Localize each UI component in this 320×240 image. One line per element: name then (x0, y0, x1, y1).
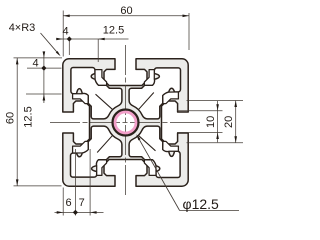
svg-text:7: 7 (79, 197, 85, 209)
svg-text:φ12.5: φ12.5 (183, 196, 220, 212)
extrusion profile body (60x60, 4 T-slots, 4 chambers, center bore) (63, 59, 188, 186)
svg-text:12.5: 12.5 (103, 25, 124, 37)
dimension 10 (slot opening, right) (177, 110, 223, 112)
pocket cells beside slot cavities (73, 70, 179, 176)
svg-text:4: 4 (63, 26, 69, 38)
svg-text:12.5: 12.5 (23, 106, 35, 127)
svg-text:20: 20 (223, 116, 235, 128)
svg-text:4: 4 (32, 58, 38, 70)
svg-text:60: 60 (5, 112, 17, 124)
svg-text:6: 6 (65, 197, 71, 209)
svg-text:60: 60 (120, 5, 132, 17)
dimensions 4 and 12.5 (top) (68, 39, 70, 55)
thin ribs from corner boxes to center boss (96, 93, 156, 153)
dimensions 4 and 12.5 (left) (27, 67, 62, 69)
label phi12.5 center bore with leader (138, 137, 180, 211)
dimensions 6 and 7 (bottom) (62, 188, 64, 216)
centerline vertical (125, 45, 127, 196)
svg-text:10: 10 (205, 116, 217, 128)
pink highlight ring inside bore (115, 112, 136, 133)
bore outline phi12.5 (113, 110, 139, 136)
dimension 60 (overall width, top) (62, 11, 64, 57)
dimension 20 (slot cavity, right) (187, 100, 244, 102)
centerline horizontal (50, 122, 201, 124)
svg-text:4×R3: 4×R3 (9, 22, 36, 34)
dimension 60 (overall height, left) (14, 57, 63, 59)
